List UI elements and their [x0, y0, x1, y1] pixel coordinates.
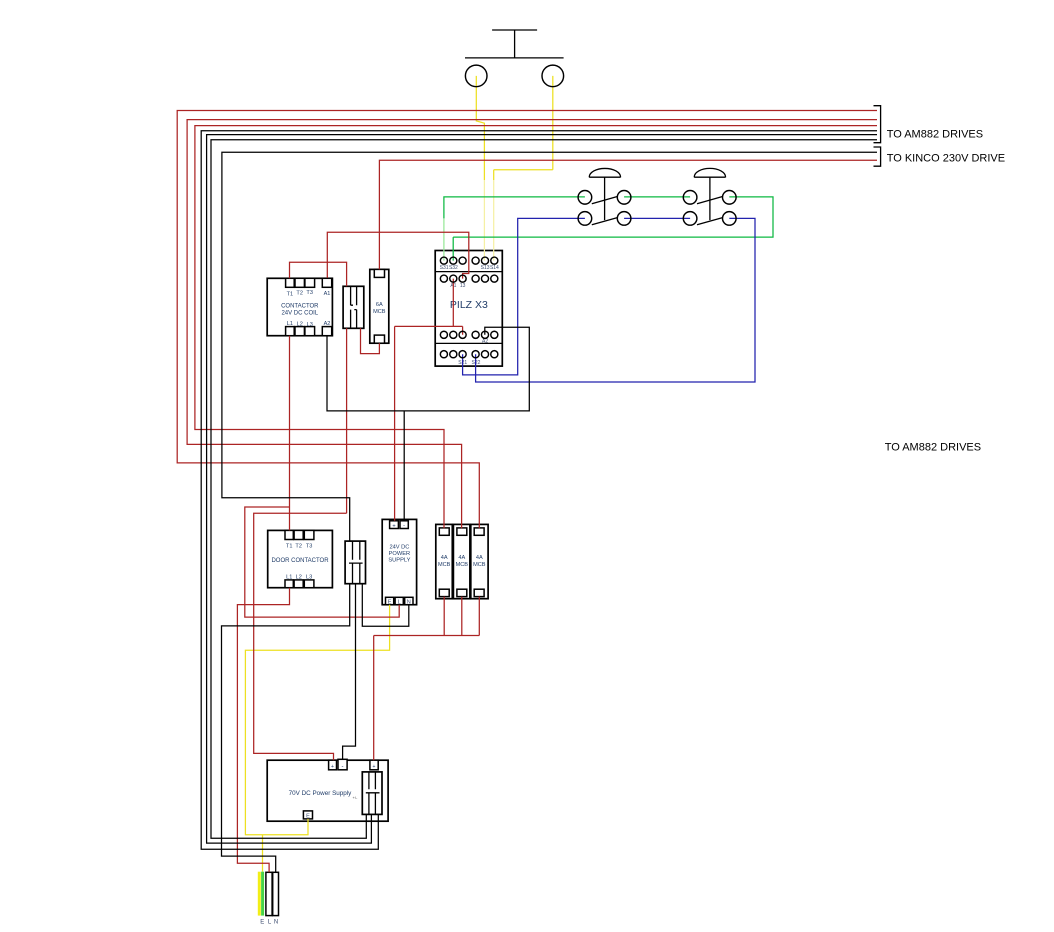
- wire black: fuse block X2 left pole to mains strip N: [222, 584, 350, 873]
- svg-text:T2: T2: [295, 544, 302, 550]
- door contactor terminal T2: [294, 530, 303, 549]
- svg-text:T2: T2: [296, 291, 303, 297]
- S2 contact circle row1 left: [683, 191, 697, 205]
- wire green: switch 2 row 1 return to PILZ S32: [453, 197, 773, 261]
- wire red: AM882 drive supply 2 from 4A MCB F2: [187, 120, 877, 529]
- svg-text:E: E: [388, 600, 392, 606]
- PILZ terminal circles row 4: [440, 351, 498, 358]
- wire red: contactor L1 to door contactor T1: [289, 336, 291, 531]
- wire red: tap to 24V supply L: [245, 507, 399, 617]
- svg-text:T3: T3: [306, 544, 313, 550]
- contactor K1 body (CONTACTOR 24V DC COIL): [267, 278, 332, 335]
- svg-text:T1: T1: [287, 292, 294, 298]
- svg-text:-: -: [342, 764, 344, 770]
- svg-text:N: N: [407, 600, 411, 606]
- S1 contact bar row2: [592, 218, 618, 225]
- svg-text:S31: S31: [440, 265, 449, 271]
- svg-text:TO AM882 DRIVES: TO AM882 DRIVES: [887, 129, 983, 141]
- svg-text:+: +: [331, 764, 334, 770]
- PS1 terminal L: [395, 597, 403, 605]
- S2 contact bar row2: [697, 218, 723, 225]
- PS2 terminal plus left: [329, 760, 337, 770]
- door contactor terminal T3: [304, 530, 314, 549]
- door contactor terminal T1: [285, 530, 293, 549]
- svg-text:L3: L3: [307, 322, 313, 328]
- circuit breaker 4A MCB F2: [453, 524, 470, 598]
- PILZ terminal circles row 1: [440, 257, 498, 264]
- PS1 terminal E: [386, 597, 394, 605]
- bracket: AM882 drives bundle: [874, 106, 881, 143]
- switch S1 mushroom head: [589, 168, 620, 220]
- safety relay U1 PILZ X3 body: [435, 251, 502, 367]
- svg-text:E: E: [260, 920, 264, 926]
- wire yellow: earth bus linking 24V E, 70V E and mains earth: [245, 605, 389, 872]
- fuse terminal block X2 (three-pole disconnect): [345, 541, 365, 584]
- svg-text:S13: S13: [481, 265, 490, 271]
- wire black: AM882 drive return 3: [211, 140, 877, 839]
- wire black: contactor A2 to PILZ A2 and 24V supply minus: [327, 327, 529, 521]
- wire red: KINCO 230V drive line via 6A MCB: [379, 160, 877, 269]
- contactor K1 terminal T2: [295, 278, 304, 296]
- svg-text:MCB: MCB: [456, 562, 469, 568]
- svg-text:L1: L1: [287, 321, 293, 327]
- svg-text:PILZ X3: PILZ X3: [450, 299, 488, 311]
- wire green: link between switch 1 and switch 2 row 1: [624, 196, 690, 198]
- svg-text:TO AM882 DRIVES: TO AM882 DRIVES: [885, 442, 981, 454]
- door contactor terminal L1: [285, 574, 293, 587]
- switch S2 mushroom head: [694, 168, 725, 220]
- power supply PS1 24V DC body: [382, 519, 416, 604]
- wire red: contactor T1 to fuse block X1 top: [290, 262, 347, 286]
- S1 contact bar row1: [592, 196, 618, 203]
- wire red: fuse block X1 bottom to 70V supply plus: [254, 328, 347, 760]
- wire red: PILZ A1 to 24V supply plus and contact 14: [395, 279, 463, 521]
- svg-text:L: L: [398, 600, 401, 606]
- wire red: 6A MCB bottom to fuse block X1 right pole: [361, 328, 380, 353]
- svg-text:T3: T3: [306, 290, 313, 296]
- PILZ terminal circles row 2: [440, 275, 498, 282]
- earth wire yellow stripe: [258, 872, 261, 916]
- fuse terminal block X3 inside PS2: [362, 772, 382, 815]
- wire black: AM882 drive return 1: [201, 131, 877, 850]
- S1 contact circle row2 left: [578, 212, 592, 226]
- mains terminal strip L pole: [266, 872, 272, 915]
- wire yellow: e-stop contact 2 to PILZ S14: [494, 76, 553, 180]
- svg-text:S32: S32: [449, 265, 458, 271]
- wire black: fuse block X2 middle pole to 70V supply minus: [343, 584, 356, 760]
- svg-text:DOOR CONTACTOR: DOOR CONTACTOR: [271, 558, 329, 564]
- svg-text:6A: 6A: [376, 302, 383, 308]
- svg-text:L3: L3: [306, 574, 312, 580]
- contactor K1 terminal L2: [295, 322, 304, 336]
- svg-text:CONTACTOR: CONTACTOR: [281, 304, 319, 310]
- wire black: KINCO drive neutral to fuse block X2: [222, 152, 877, 541]
- svg-text:TO KINCO 230V DRIVE: TO KINCO 230V DRIVE: [887, 153, 1005, 165]
- S1 contact circle row1 left: [578, 191, 592, 205]
- svg-text:T1: T1: [286, 544, 293, 550]
- contactor K1 terminal A1: [322, 278, 331, 297]
- S2 contact circle row1 right: [723, 191, 737, 205]
- wire blue: PILZ S21 to switch contacts row 2: [463, 218, 585, 375]
- svg-text:+: +: [373, 764, 376, 770]
- wire green: PILZ S31 to switch contacts row 1: [444, 197, 585, 219]
- wire yellow: e-stop contact 2 pale section: [493, 180, 495, 261]
- PS1 terminal plus: [390, 521, 399, 530]
- svg-text:-: -: [403, 523, 405, 529]
- svg-text:E: E: [306, 814, 310, 820]
- svg-text:N: N: [274, 920, 278, 926]
- svg-text:A1: A1: [324, 291, 331, 297]
- bracket: KINCO drive bundle: [874, 147, 881, 166]
- wire blue: link between switch 1 and switch 2 row 2: [624, 217, 690, 219]
- fuse terminal block X1 (two-pole disconnect): [343, 286, 364, 328]
- contactor K1 terminal L3: [305, 322, 315, 336]
- svg-text:S14: S14: [490, 265, 499, 271]
- contactor K1 terminal A2: [322, 321, 331, 336]
- wire black: fuse block X2 right pole to 24V supply N: [362, 584, 409, 627]
- PS2 terminal minus: [338, 759, 347, 770]
- svg-text:MCB: MCB: [438, 562, 451, 568]
- PS2 terminal plus right: [370, 760, 378, 770]
- wire blue: switch 2 row 2 return to PILZ S22: [476, 218, 755, 382]
- svg-text:+: +: [392, 523, 395, 529]
- contactor K1 terminal L1: [286, 321, 295, 336]
- S2 contact circle row2 left: [683, 212, 697, 226]
- contactor K1 terminal T3: [305, 278, 315, 296]
- door contactor terminal L2: [294, 574, 303, 587]
- PS2 terminal E: [303, 811, 312, 820]
- contactor K1 terminal T1: [286, 278, 295, 297]
- svg-text:4A: 4A: [441, 555, 448, 561]
- svg-text:L2: L2: [297, 322, 303, 328]
- door contactor K2 body: [268, 530, 333, 587]
- svg-text:70V DC Power Supply: 70V DC Power Supply: [289, 790, 353, 797]
- svg-text:A2: A2: [482, 339, 488, 345]
- PS1 terminal N: [405, 597, 413, 605]
- PB1 contact circle 2: [542, 65, 564, 87]
- earth wire green stripe: [261, 872, 264, 916]
- mains terminal strip N pole: [273, 872, 279, 915]
- svg-text:13: 13: [460, 283, 466, 289]
- svg-text:+/-: +/-: [353, 795, 358, 800]
- svg-text:4A: 4A: [476, 555, 483, 561]
- door contactor terminal L3: [304, 574, 314, 587]
- wire green: PILZ S31 riser (pale section): [443, 218, 445, 260]
- wire black: AM882 drive return 2: [207, 135, 877, 844]
- S1 contact circle row1 right: [617, 191, 631, 205]
- power supply PS2 70V DC body: [267, 760, 388, 821]
- S2 contact circle row2 right: [723, 212, 737, 226]
- circuit breaker 6A MCB: [370, 269, 389, 343]
- svg-text:24V DC: 24V DC: [389, 545, 409, 551]
- wire red: AM882 drive supply 3 from 4A MCB F1: [195, 126, 877, 529]
- svg-text:SUPPLY: SUPPLY: [388, 558, 410, 564]
- svg-text:MCB: MCB: [373, 309, 386, 315]
- wire red: contactor A1 to PILZ contact 13: [327, 232, 469, 278]
- svg-text:24V DC COIL: 24V DC COIL: [281, 311, 318, 317]
- S1 contact circle row2 right: [617, 212, 631, 226]
- circuit breaker 4A MCB F1: [436, 524, 453, 598]
- circuit breaker 4A MCB F3: [471, 524, 488, 598]
- svg-text:A2: A2: [324, 321, 331, 327]
- svg-text:4A: 4A: [458, 555, 465, 561]
- PILZ terminal circles row 3: [440, 331, 498, 338]
- PS1 terminal minus: [400, 521, 408, 529]
- wire yellow: e-stop contact 1 pale section: [483, 180, 485, 261]
- svg-text:MCB: MCB: [473, 562, 486, 568]
- wire red: 4A MCB bottoms bus to 70V supply plus right: [374, 597, 480, 761]
- svg-text:L1: L1: [286, 574, 292, 580]
- PB1 contact circle 1: [465, 65, 487, 87]
- emergency stop button PB1 actuator bar: [465, 30, 564, 58]
- svg-text:L2: L2: [296, 574, 302, 580]
- wire red: door contactor L1 to mains strip L: [237, 588, 289, 873]
- wire yellow: e-stop contact 1 to PILZ S13: [476, 76, 484, 180]
- wire red: AM882 drive supply 1 from 4A MCB F3: [177, 111, 877, 529]
- S2 contact bar row1: [697, 196, 723, 203]
- svg-text:POWER: POWER: [389, 551, 411, 557]
